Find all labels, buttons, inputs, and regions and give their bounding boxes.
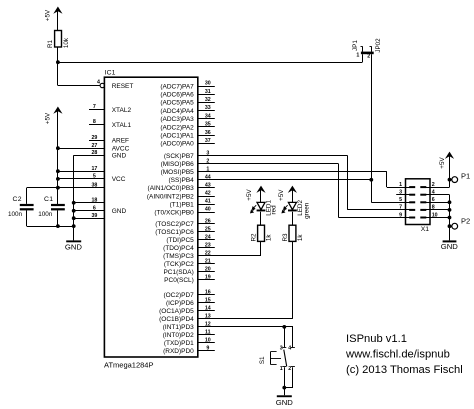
- svg-text:8: 8: [93, 119, 96, 125]
- svg-text:+5V: +5V: [44, 9, 51, 21]
- X1 pin 9 contact: [409, 217, 415, 219]
- svg-text:28: 28: [91, 150, 97, 156]
- svg-text:25: 25: [205, 226, 211, 232]
- svg-text:S1: S1: [259, 356, 266, 364]
- IC1 right pin 22 (TMS)PC3: [163, 251, 261, 261]
- svg-text:(TOSC1)PC6: (TOSC1)PC6: [155, 229, 194, 236]
- svg-text:XTAL2: XTAL2: [112, 107, 132, 114]
- svg-text:(OC1A)PD5: (OC1A)PD5: [159, 308, 194, 315]
- IC1 left pin 29 AREF: [89, 135, 129, 145]
- wire X1 pin3 stub (NC): [396, 194, 410, 196]
- wire S1 ground bridge: [284, 387, 293, 389]
- svg-text:GND: GND: [112, 208, 127, 215]
- IC1 right pin 24 (TDI)PC5: [166, 234, 214, 244]
- IC1 left pin 8 XTAL1: [89, 119, 131, 129]
- node X1 pin6 junction: [448, 200, 452, 204]
- switch S1: [259, 346, 295, 372]
- svg-text:23: 23: [205, 242, 211, 248]
- svg-text:5: 5: [93, 174, 96, 180]
- wire +5V rail vertical: [57, 111, 59, 205]
- svg-text:39: 39: [91, 213, 97, 219]
- IC1 right pin 16 (OC2)PD7: [163, 290, 214, 300]
- IC1 right pin 25 (TOSC1)PC6: [155, 226, 215, 236]
- IC1 right pin 1 (MOSI)PB5: [161, 167, 387, 177]
- svg-text:4: 4: [97, 79, 100, 85]
- X1 pin 6 contact: [420, 201, 426, 203]
- svg-text:(INT1)PD3: (INT1)PD3: [163, 324, 194, 331]
- svg-text:(OC1B)PD4: (OC1B)PD4: [159, 316, 194, 323]
- svg-text:AVCC: AVCC: [112, 146, 130, 153]
- svg-text:(AIN1/OC0)PB3: (AIN1/OC0)PB3: [148, 185, 195, 192]
- IC1 right pin 11 (INT0)PD2: [163, 330, 215, 340]
- node SS / RESET net junction: [369, 178, 373, 182]
- svg-text:3: 3: [280, 346, 283, 352]
- svg-text:9: 9: [399, 212, 402, 218]
- svg-text:33: 33: [205, 105, 211, 111]
- svg-text:GND: GND: [276, 398, 294, 407]
- svg-text:(MOSI)PB5: (MOSI)PB5: [161, 169, 195, 176]
- IC1 right pin 3 (SCK)PB7: [164, 150, 348, 160]
- svg-text:12: 12: [205, 322, 211, 328]
- svg-text:2: 2: [288, 366, 291, 372]
- IC1 left pin 5 VCC: [58, 174, 126, 184]
- svg-text:XTAL1: XTAL1: [112, 122, 132, 129]
- node GND pin39 junction: [72, 216, 76, 220]
- svg-text:35: 35: [205, 122, 211, 128]
- node P2 junction: [448, 224, 452, 228]
- node VCC pin38 junction: [56, 186, 60, 190]
- wire JP1 left pin up from RESET wire: [362, 54, 364, 62]
- resistor R3 1k: [282, 225, 304, 241]
- X1 pin 7 contact: [409, 209, 415, 211]
- IC1 right pin 32 (ADC5)PA5: [160, 97, 214, 107]
- resistor R1 10k: [47, 31, 70, 49]
- wire +5V to LED2: [292, 190, 294, 203]
- wire SCK PB7 to X1 pin7: [347, 156, 349, 210]
- svg-text:31: 31: [205, 89, 211, 95]
- wire VCC pin38 row to C2: [27, 187, 105, 189]
- IC1 right pin 10 (TXD)PD1: [164, 338, 215, 348]
- svg-text:15: 15: [205, 298, 211, 304]
- node S1 PD3 junction: [282, 325, 286, 329]
- wire X1 pin4 stub: [426, 194, 450, 196]
- IC1 right pin 30 (ADC7)PA7: [160, 81, 214, 91]
- node X1 pin8 junction: [448, 208, 452, 212]
- IC1 right pin 40 (T0/XCK)PB0: [154, 207, 214, 217]
- svg-text:ISPnub v1.1: ISPnub v1.1: [346, 333, 407, 345]
- node X1 pin10 junction: [448, 216, 452, 220]
- X1 pin 2 contact: [420, 186, 426, 188]
- IC1 right pin 41 (T1)PB1: [170, 199, 215, 209]
- jumper JP1: [352, 40, 374, 59]
- wire RESET net to X1 pin 5: [371, 202, 410, 204]
- ground GND (left): [65, 240, 83, 251]
- svg-text:R2: R2: [251, 233, 258, 242]
- svg-text:(TDO)PC4: (TDO)PC4: [163, 245, 194, 252]
- svg-text:37: 37: [205, 138, 211, 144]
- wire RESET node down to pin 4: [57, 62, 59, 85]
- wire R3 to PD4: [292, 241, 294, 319]
- IC1 right pin 35 (ADC2)PA2: [160, 122, 214, 132]
- svg-text:R1: R1: [47, 39, 54, 48]
- svg-text:24: 24: [205, 234, 211, 240]
- IC1 right pin 43 (AIN1/OC0)PB3: [148, 183, 215, 193]
- svg-text:(ADC7)PA7: (ADC7)PA7: [160, 83, 194, 90]
- svg-text:11: 11: [205, 330, 211, 336]
- svg-text:(ADC1)PA1: (ADC1)PA1: [160, 133, 194, 140]
- node C1 ground junction: [56, 224, 60, 228]
- svg-text:6: 6: [93, 205, 96, 211]
- wire MISO horizontal to X1 pin9: [339, 217, 410, 219]
- svg-text:34: 34: [205, 113, 211, 119]
- svg-text:26: 26: [205, 218, 211, 224]
- svg-text:(c) 2013 Thomas Fischl: (c) 2013 Thomas Fischl: [346, 364, 463, 376]
- svg-text:PC0(SCL): PC0(SCL): [164, 277, 194, 284]
- resistor R2 1k: [251, 225, 273, 241]
- svg-text:(TXD)PD1: (TXD)PD1: [164, 340, 194, 347]
- IC1 right pin 12 (INT1)PD3: [163, 322, 293, 332]
- svg-text:(RXD)PD0: (RXD)PD0: [163, 348, 194, 355]
- wire capacitor ground rail: [27, 226, 74, 228]
- wire to RESET pin: [58, 85, 100, 87]
- pad P2: [450, 217, 471, 230]
- svg-text:(ADC2)PA2: (ADC2)PA2: [160, 124, 194, 131]
- wire LED1 to R2: [260, 212, 262, 225]
- svg-text:40: 40: [205, 207, 211, 213]
- IC1 right pin 37 (ADC0)PA0: [160, 138, 214, 148]
- svg-text:1: 1: [399, 182, 402, 188]
- IC1 right pin 23 (TDO)PC4: [163, 242, 215, 252]
- svg-text:VCC: VCC: [112, 176, 126, 183]
- node ground rail junction: [72, 224, 76, 228]
- node P1 junction: [448, 178, 452, 182]
- svg-text:10k: 10k: [63, 37, 70, 48]
- svg-text:13: 13: [205, 314, 211, 320]
- svg-text:2: 2: [206, 158, 209, 164]
- svg-text:(ADC3)PA3: (ADC3)PA3: [160, 116, 194, 123]
- IC1 right pin 19 PC0(SCL): [164, 275, 215, 285]
- wire MOSI PB5 to X1 pin1: [386, 172, 388, 187]
- svg-text:(TDI)PC5: (TDI)PC5: [166, 237, 194, 244]
- connector X1 2x5 header body: [406, 179, 431, 225]
- X1 pin 1 contact: [409, 186, 415, 188]
- X1 pin 4 contact: [420, 194, 426, 196]
- IC1 right pin 36 (ADC1)PA1: [160, 130, 214, 140]
- node VCC pin5 junction: [56, 177, 60, 181]
- wire PD3 to S1 pin 3: [284, 327, 286, 348]
- svg-text:2: 2: [367, 53, 370, 59]
- svg-text:1: 1: [206, 167, 209, 173]
- svg-text:1: 1: [280, 366, 283, 372]
- IC1 right pin 2 (MISO)PB6: [161, 158, 339, 168]
- svg-text:X1: X1: [421, 226, 430, 233]
- IC1 left pin 7 XTAL2: [89, 104, 131, 114]
- svg-text:(SS)PB4: (SS)PB4: [169, 177, 195, 184]
- svg-text:32: 32: [205, 97, 211, 103]
- svg-text:10: 10: [205, 338, 211, 344]
- wire +5V down to X1 pin2: [449, 156, 451, 188]
- wire SCK horizontal to X1 pin7: [348, 209, 410, 211]
- IC1 left pin 39: [74, 213, 105, 219]
- svg-text:7: 7: [93, 104, 96, 110]
- svg-text:41: 41: [205, 199, 211, 205]
- power +5V (LED1): [246, 186, 265, 201]
- wire X1 pin8 stub: [426, 209, 450, 211]
- svg-text:RESET: RESET: [112, 83, 134, 90]
- svg-text:JP02: JP02: [375, 38, 382, 53]
- svg-text:21: 21: [205, 259, 211, 265]
- X1 pin 8 contact: [420, 209, 426, 211]
- svg-text:+5V: +5V: [44, 112, 51, 124]
- IC1 right pin 15 (ICP)PD6: [166, 298, 215, 308]
- svg-text:20: 20: [205, 267, 211, 273]
- wire S1 pin 2 to ground bridge: [292, 367, 294, 387]
- svg-text:+5V: +5V: [439, 157, 446, 169]
- wire LED2 to R3: [292, 212, 294, 225]
- power +5V (VCC rail): [44, 107, 62, 125]
- svg-text:(SCK)PB7: (SCK)PB7: [164, 153, 194, 160]
- IC1 left pin 6 GND: [74, 205, 127, 215]
- wire X1 pin6 stub: [426, 202, 450, 204]
- svg-text:16: 16: [205, 290, 211, 296]
- LED LED1 red: [251, 200, 278, 216]
- wire PD3 to S1 pin 4: [292, 327, 294, 348]
- svg-text:3: 3: [206, 150, 209, 156]
- svg-text:22: 22: [205, 251, 211, 257]
- IC1 right pin 44 (SS)PB4: [169, 174, 372, 184]
- svg-text:14: 14: [205, 306, 211, 312]
- svg-text:(ICP)PD6: (ICP)PD6: [166, 300, 194, 307]
- IC1 left pin 28 GND: [74, 150, 127, 160]
- IC1 right pin 14 (OC1A)PD5: [159, 306, 215, 316]
- svg-text:(TOSC2)PC7: (TOSC2)PC7: [155, 221, 194, 228]
- svg-text:+5V: +5V: [246, 189, 253, 201]
- svg-text:JP1: JP1: [352, 40, 359, 51]
- pad P1: [450, 171, 471, 182]
- wire R2 to PC3: [260, 241, 262, 256]
- ground GND (X1): [441, 240, 459, 251]
- power +5V (R1 top): [44, 7, 62, 31]
- IC1 right pin 34 (ADC3)PA3: [160, 113, 214, 123]
- wire R1 to RESET node: [57, 47, 59, 62]
- wire X1 pin2 stub: [426, 187, 450, 189]
- node S1 ground junction: [282, 386, 286, 390]
- svg-text:100n: 100n: [8, 211, 23, 218]
- svg-text:30: 30: [205, 81, 211, 87]
- IC1 right pin 20 PC1(SDA): [163, 267, 214, 277]
- svg-text:(ADC0)PA0: (ADC0)PA0: [160, 141, 194, 148]
- svg-text:IC1: IC1: [105, 70, 116, 77]
- svg-text:(TCK)PC2: (TCK)PC2: [164, 261, 194, 268]
- svg-text:P2: P2: [461, 217, 470, 226]
- X1 pin 10 contact: [420, 217, 426, 219]
- node VCC pin17 junction: [56, 169, 60, 173]
- node GND pin6 junction: [72, 209, 76, 213]
- svg-text:1k: 1k: [266, 234, 273, 242]
- svg-text:5: 5: [399, 197, 402, 203]
- IC1 left pin 17: [58, 166, 105, 172]
- wire JP02 down to SS node and X1 pin5: [371, 54, 373, 202]
- op IC1 ATmega1284P body: [104, 77, 197, 357]
- svg-text:19: 19: [205, 275, 211, 281]
- IC1 right pin 13 (OC1B)PD4: [159, 314, 292, 324]
- svg-text:GND: GND: [112, 153, 127, 160]
- IC1 right pin 31 (ADC6)PA6: [160, 89, 214, 99]
- wire S1 pin 1 to ground bridge: [284, 367, 286, 387]
- power +5V (LED2): [278, 186, 297, 201]
- wire MOSI horizontal to X1 pin1: [387, 187, 410, 189]
- svg-text:+5V: +5V: [278, 189, 285, 201]
- svg-text:4: 4: [288, 346, 291, 352]
- wire RESET node to JP1: [58, 62, 362, 64]
- svg-text:GND: GND: [441, 242, 459, 251]
- svg-text:R3: R3: [282, 233, 289, 242]
- X1 pin 3 contact: [409, 194, 415, 196]
- ground GND (S1): [276, 395, 294, 407]
- svg-text:17: 17: [91, 166, 97, 172]
- capacitor C1 100n: [38, 196, 65, 226]
- wire S1 to GND: [284, 388, 286, 396]
- IC1 right pin 33 (ADC4)PA4: [160, 105, 214, 115]
- svg-text:1k: 1k: [297, 234, 304, 242]
- IC1 left pin 38: [91, 182, 97, 188]
- IC1 left pin 18: [74, 197, 105, 203]
- svg-text:P1: P1: [461, 171, 470, 180]
- svg-text:(T0/XCK)PB0: (T0/XCK)PB0: [154, 209, 194, 216]
- svg-text:red: red: [271, 205, 278, 215]
- svg-text:27: 27: [91, 143, 97, 149]
- svg-text:44: 44: [205, 174, 211, 180]
- svg-text:(ADC6)PA6: (ADC6)PA6: [160, 92, 194, 99]
- IC1 right pin 42 (AIN0/INT2)PB2: [147, 191, 215, 201]
- svg-text:green: green: [304, 202, 311, 219]
- svg-text:9: 9: [206, 345, 209, 351]
- IC1 right pin 26 (TOSC2)PC7: [155, 218, 215, 228]
- svg-text:(ADC4)PA4: (ADC4)PA4: [160, 108, 194, 115]
- LED LED2 green: [282, 200, 311, 219]
- svg-text:100n: 100n: [38, 211, 53, 218]
- svg-text:43: 43: [205, 183, 211, 189]
- node AVCC junction: [56, 146, 60, 150]
- svg-text:AREF: AREF: [112, 138, 129, 145]
- svg-text:ATmega1284P: ATmega1284P: [104, 361, 153, 370]
- svg-text:(T1)PB1: (T1)PB1: [170, 201, 195, 208]
- svg-text:29: 29: [91, 135, 97, 141]
- capacitor C2 100n: [8, 188, 34, 226]
- svg-text:www.fischl.de/ispnub: www.fischl.de/ispnub: [345, 349, 450, 361]
- X1 pin 5 contact: [409, 201, 415, 203]
- svg-text:7: 7: [399, 205, 402, 211]
- IC1 right pin 9 (RXD)PD0: [163, 345, 215, 355]
- svg-text:1: 1: [356, 52, 359, 58]
- IC1 right pin 21 (TCK)PC2: [164, 259, 215, 269]
- node GND pin18 junction: [72, 201, 76, 205]
- svg-text:GND: GND: [65, 242, 83, 251]
- node RESET junction: [56, 60, 60, 64]
- svg-text:(ADC5)PA5: (ADC5)PA5: [160, 100, 194, 107]
- wire +5V to LED1: [260, 190, 262, 203]
- svg-text:(OC2)PD7: (OC2)PD7: [163, 292, 194, 299]
- svg-text:36: 36: [205, 130, 211, 136]
- wire MISO PB6 to X1 pin9: [338, 164, 340, 218]
- svg-text:42: 42: [205, 191, 211, 197]
- jumper pad JP02: [367, 38, 382, 59]
- svg-text:(TMS)PC3: (TMS)PC3: [163, 253, 194, 260]
- svg-text:C1: C1: [44, 196, 54, 203]
- IC1 left pin 27 AVCC: [58, 143, 130, 153]
- svg-text:3: 3: [399, 190, 402, 196]
- svg-text:PC1(SDA): PC1(SDA): [163, 269, 193, 276]
- wire GND rail vertical: [73, 155, 75, 240]
- svg-text:(AIN0/INT2)PB2: (AIN0/INT2)PB2: [147, 193, 194, 200]
- svg-text:C2: C2: [13, 196, 23, 203]
- wire X1 ground verticals: [449, 195, 451, 241]
- svg-text:(INT0)PD2: (INT0)PD2: [163, 332, 194, 339]
- wire X1 pin10 stub: [426, 217, 450, 219]
- svg-text:18: 18: [91, 197, 97, 203]
- RESET pin inversion bubble, pin 4: [97, 79, 104, 87]
- svg-text:(MISO)PB6: (MISO)PB6: [161, 161, 195, 168]
- power +5V (X1 pin2): [439, 152, 454, 169]
